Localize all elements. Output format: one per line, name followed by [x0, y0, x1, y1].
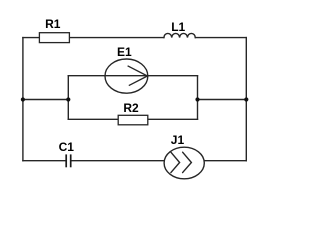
- svg-text:R1: R1: [45, 17, 61, 31]
- svg-text:E1: E1: [117, 45, 132, 59]
- svg-text:R2: R2: [123, 101, 139, 115]
- svg-text:C1: C1: [59, 140, 75, 154]
- svg-text:J1: J1: [171, 133, 185, 147]
- svg-text:L1: L1: [171, 20, 185, 34]
